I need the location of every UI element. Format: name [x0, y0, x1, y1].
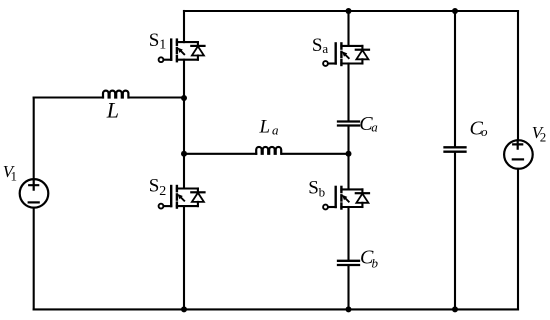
svg-text:a: a: [371, 119, 378, 134]
svg-text:b: b: [319, 184, 326, 199]
svg-text:S: S: [149, 30, 160, 51]
svg-text:1: 1: [11, 169, 18, 184]
svg-text:a: a: [322, 41, 328, 56]
svg-text:2: 2: [159, 184, 166, 199]
svg-text:S: S: [149, 175, 160, 196]
svg-text:L: L: [106, 98, 119, 123]
svg-text:1: 1: [159, 37, 166, 52]
svg-text:L: L: [259, 117, 271, 138]
svg-text:S: S: [308, 177, 319, 198]
svg-text:b: b: [372, 256, 379, 271]
svg-text:S: S: [312, 35, 323, 56]
svg-text:o: o: [481, 124, 488, 139]
svg-text:2: 2: [540, 130, 547, 145]
svg-text:a: a: [272, 122, 279, 137]
